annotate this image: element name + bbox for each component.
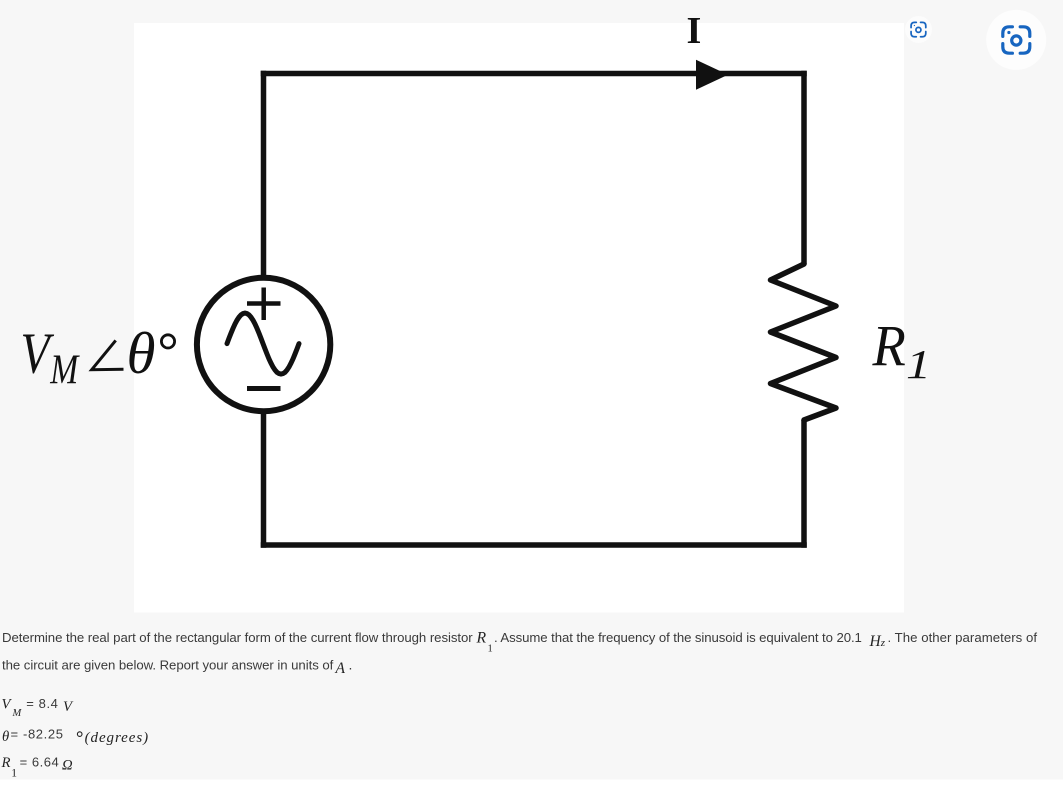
- svg-text:Ω: Ω: [62, 758, 73, 774]
- white circuit image panel: [134, 23, 904, 613]
- svg-text:θ: θ: [127, 320, 156, 386]
- svg-text:θ: θ: [2, 729, 9, 745]
- svg-text:the circuit are given below. R: the circuit are given below. Report your…: [2, 658, 334, 673]
- wire: right vertical lower segment (resistor bottom to bottom-right corner): [801, 420, 807, 548]
- svg-text:M: M: [49, 347, 80, 393]
- large lens icon: [1003, 27, 1030, 53]
- current direction arrowhead on top wire: [696, 60, 728, 90]
- svg-text:= 8.4: = 8.4: [26, 696, 58, 711]
- svg-text:z: z: [880, 637, 886, 649]
- svg-text:M: M: [12, 708, 23, 719]
- svg-text:1: 1: [488, 644, 493, 655]
- svg-text:. The other parameters of: . The other parameters of: [888, 630, 1038, 645]
- svg-text:H: H: [869, 633, 882, 650]
- svg-text:1: 1: [11, 767, 17, 779]
- svg-text:. Assume that the frequency of: . Assume that the frequency of the sinus…: [494, 630, 862, 645]
- svg-text:.: .: [349, 657, 353, 673]
- svg-text:A: A: [335, 660, 346, 677]
- wire: left vertical upper segment (top-left corner to source top): [261, 71, 267, 278]
- angle symbol: [92, 340, 124, 369]
- small lens icon white halo: [905, 16, 932, 43]
- voltage source V1 circle: [197, 278, 330, 411]
- svg-text:1: 1: [906, 341, 931, 387]
- wire: bottom horizontal segment: [261, 542, 807, 548]
- voltage source plus sign: [247, 288, 281, 321]
- label VM angle theta: degree ring: [161, 335, 174, 348]
- svg-text:(degrees): (degrees): [85, 730, 149, 746]
- voltage source sine wave: [227, 313, 299, 374]
- wire: top horizontal segment: [261, 71, 807, 77]
- svg-text:R: R: [1, 755, 11, 771]
- small lens icon: [911, 22, 926, 36]
- wire: left vertical lower segment (source bottom to bottom-left corner): [261, 412, 267, 548]
- svg-text:= -82.25: = -82.25: [11, 727, 64, 742]
- svg-text:= 6.64: = 6.64: [20, 755, 59, 770]
- svg-text:R: R: [872, 315, 906, 379]
- svg-text:I: I: [687, 10, 702, 52]
- svg-text:V: V: [21, 320, 55, 386]
- svg-text:R: R: [476, 630, 487, 647]
- large lens icon white circle: [986, 10, 1046, 70]
- svg-text:Determine the real part of the: Determine the real part of the rectangul…: [2, 630, 473, 645]
- resistor R1 zigzag: [771, 264, 837, 420]
- voltage source minus sign: [247, 386, 281, 391]
- wire: right vertical upper segment (top-right corner to resistor top): [801, 71, 807, 264]
